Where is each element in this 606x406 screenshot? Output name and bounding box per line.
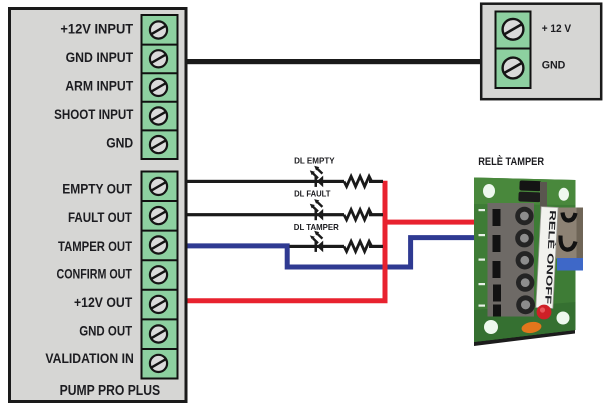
screw GND OUT	[150, 325, 167, 342]
relay screw 4	[516, 273, 534, 291]
wire slot 4	[493, 285, 501, 302]
wire slot 1	[493, 209, 501, 226]
terminal strip gray block	[488, 203, 535, 317]
relay body	[556, 208, 583, 259]
diode D2	[518, 192, 540, 203]
svg-text:GND: GND	[542, 60, 566, 72]
svg-text:FAULT OUT: FAULT OUT	[68, 209, 132, 225]
diode D1	[519, 180, 541, 191]
wire TAMPER OUT (blue)	[188, 238, 476, 267]
hole bottom-left	[484, 320, 498, 334]
screw FAULT OUT	[150, 207, 167, 224]
screw VALIDATION IN	[150, 355, 167, 372]
power supply terminal box	[481, 4, 601, 100]
screw GND	[150, 136, 167, 153]
relay screw 1	[515, 207, 533, 225]
screw ARM INPUT	[150, 79, 167, 96]
LED red on board	[537, 305, 552, 320]
screw +12V INPUT	[150, 21, 167, 38]
silk screen marks	[479, 209, 486, 211]
svg-text:+ 12 V: + 12 V	[542, 23, 572, 35]
svg-text:VALIDATION IN: VALIDATION IN	[45, 350, 133, 366]
wire red branch to relay	[383, 220, 476, 225]
svg-text:DL FAULT: DL FAULT	[294, 189, 331, 199]
screw GND INPUT	[150, 50, 167, 67]
screw GND supply	[503, 58, 524, 79]
svg-text:RELÈ TAMPER: RELÈ TAMPER	[478, 155, 544, 168]
wire slot 2	[493, 235, 501, 252]
svg-text:CONFIRM OUT: CONFIRM OUT	[57, 265, 133, 281]
svg-text:TAMPER OUT: TAMPER OUT	[58, 238, 132, 254]
board PCB	[474, 178, 576, 343]
power green terminal block	[496, 12, 531, 89]
wire FAULT OUT (black)	[188, 213, 384, 216]
hole top-left	[483, 184, 495, 198]
svg-text:PUMP PRO PLUS: PUMP PRO PLUS	[60, 382, 161, 399]
LED DL EMPTY	[310, 166, 323, 187]
PUMP PRO PLUS control panel	[10, 9, 187, 402]
wire EMPTY OUT (black)	[188, 180, 384, 183]
screw +12V OUT	[150, 296, 167, 313]
wire slot 3	[493, 261, 501, 278]
relay screw 2	[515, 229, 533, 247]
svg-text:EMPTY OUT: EMPTY OUT	[62, 180, 132, 196]
screw CONFIRM OUT	[150, 266, 167, 283]
hole bottom-right	[557, 312, 570, 325]
resistor R2	[344, 210, 372, 220]
resistor R3	[344, 241, 372, 251]
svg-text:GND: GND	[106, 134, 133, 150]
hole top-right	[559, 188, 569, 201]
resistor R1	[344, 176, 372, 186]
relay screw 5	[516, 295, 535, 314]
svg-text:SHOOT INPUT: SHOOT INPUT	[54, 106, 134, 122]
terminal block TB1 (inputs)	[142, 15, 178, 159]
white label RELÈ ONOFF	[536, 207, 558, 309]
screw EMPTY OUT	[150, 178, 167, 195]
relay top shadow	[540, 182, 547, 210]
wire TAMPER branch (black)	[290, 245, 384, 248]
wire GND INPUT to power GND (black)	[188, 59, 481, 64]
svg-text:ARM INPUT: ARM INPUT	[65, 78, 133, 94]
relay blue stripe	[557, 258, 583, 271]
svg-text:DL TAMPER: DL TAMPER	[294, 222, 339, 232]
svg-text:GND INPUT: GND INPUT	[66, 49, 134, 65]
svg-text:DL EMPTY: DL EMPTY	[294, 156, 335, 166]
terminal block TB2 (outputs)	[142, 172, 178, 379]
LED DL TAMPER	[310, 231, 323, 252]
relay screw 3	[516, 251, 534, 269]
svg-text:+12V OUT: +12V OUT	[74, 294, 133, 310]
screw TAMPER OUT	[150, 236, 167, 253]
wire +12V OUT to LED bus (red)	[188, 181, 386, 301]
svg-text:+12V INPUT: +12V INPUT	[60, 21, 133, 37]
screw +12V supply	[503, 19, 524, 40]
relay board photo	[474, 178, 583, 347]
LED DL FAULT	[310, 199, 323, 220]
screw SHOOT INPUT	[150, 107, 167, 124]
orange capacitor	[521, 321, 542, 335]
wire slot 5	[493, 305, 501, 317]
svg-text:GND OUT: GND OUT	[79, 323, 132, 339]
board shadow	[474, 330, 575, 347]
